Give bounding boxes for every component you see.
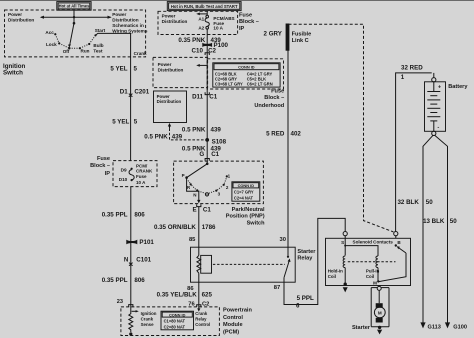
svg-text:Schematics in: Schematics in	[112, 23, 144, 28]
wire (dashed): fusible link to solenoid B stud	[289, 24, 394, 232]
svg-text:Fuse: Fuse	[271, 89, 284, 95]
ignition switch lever (in OFF)	[68, 22, 75, 50]
wire (dashed): 0.5 PNK 439 to splice S108	[170, 128, 206, 140]
text: Ignition Switch	[3, 63, 26, 77]
label: 0.5 PNK 439 (above S108)	[182, 126, 221, 133]
svg-text:Distribution: Distribution	[162, 19, 188, 24]
text: ignition switch position names	[45, 28, 105, 54]
svg-text:5 PPL: 5 PPL	[297, 295, 314, 302]
wire: 0.35 PNK 439 from A2 down	[206, 29, 208, 161]
label: 5 YEL 5 (upper)	[110, 65, 137, 72]
svg-text:Control: Control	[195, 322, 210, 327]
PNP switch position contacts	[190, 175, 228, 196]
node M junction	[377, 280, 379, 282]
starter relay switch contact	[284, 247, 291, 282]
ground: starter case	[378, 326, 381, 329]
svg-text:Switch: Switch	[247, 220, 266, 226]
svg-text:M: M	[378, 310, 382, 315]
svg-text:D11: D11	[192, 94, 204, 101]
svg-text:Position (PNP): Position (PNP)	[226, 214, 265, 220]
svg-text:(PCM): (PCM)	[223, 330, 239, 336]
svg-text:10 A: 10 A	[136, 180, 146, 185]
fuse PCM/ABS 10A	[205, 16, 234, 31]
fuse block IP housing (dashed)	[113, 161, 157, 187]
svg-text:32 RED: 32 RED	[401, 64, 423, 71]
svg-text:Block –: Block –	[239, 19, 259, 25]
svg-text:Power: Power	[112, 12, 126, 17]
svg-text:Powertrain: Powertrain	[223, 308, 252, 314]
svg-text:Crank: Crank	[195, 311, 208, 316]
text: Pull-In Coil	[366, 268, 380, 279]
text: Fuse Block - IP (top right)	[239, 13, 259, 32]
svg-text:Link C: Link C	[292, 38, 309, 44]
solenoid plunger linkage (dashed)	[348, 261, 396, 263]
svg-text:Underhood: Underhood	[254, 103, 284, 109]
svg-text:C10: C10	[192, 47, 204, 54]
fusible link C (2 GRY)	[264, 24, 312, 51]
svg-text:A2: A2	[198, 25, 204, 30]
solenoid contact arm B to M	[379, 244, 406, 281]
resistor: ignition crank sense pull-down	[129, 312, 133, 333]
text: PNP position names	[182, 173, 231, 198]
svg-text:E: E	[193, 207, 197, 214]
grommet P101	[126, 239, 154, 246]
svg-text:P: P	[182, 173, 185, 178]
pin 23 into PCM	[117, 299, 133, 307]
svg-text:Distribution: Distribution	[8, 17, 34, 22]
svg-text:Fuse: Fuse	[239, 13, 252, 19]
terminal A1	[198, 15, 208, 21]
connector D11 / C1	[192, 92, 218, 100]
svg-text:Test: Test	[93, 49, 103, 54]
svg-text:C2=4 NAT: C2=4 NAT	[234, 195, 254, 200]
svg-text:5: 5	[134, 119, 138, 126]
wire: START contact to crank output	[96, 33, 131, 57]
label: 0.35 PNK 439	[178, 37, 221, 44]
wire: 32 RED 1 battery positive to solenoid B	[396, 73, 432, 232]
svg-text:2 GRY: 2 GRY	[264, 31, 283, 38]
svg-text:P101: P101	[139, 239, 154, 246]
svg-text:1786: 1786	[202, 224, 216, 231]
PCM module housing (dashed)	[121, 307, 219, 336]
label: 0.5 PNK 439 (dashed branch)	[144, 133, 182, 140]
svg-text:Run: Run	[81, 48, 90, 53]
starter relay coil	[197, 247, 212, 282]
svg-text:85: 85	[189, 237, 196, 243]
svg-text:M: M	[373, 280, 377, 285]
starter relay box	[191, 247, 296, 282]
svg-text:0.5 PNK: 0.5 PNK	[182, 126, 206, 133]
svg-text:Off: Off	[63, 49, 70, 54]
PNP position arc (dotted)	[188, 178, 227, 194]
svg-text:G100: G100	[453, 324, 467, 330]
PCM internal ground node	[129, 332, 132, 335]
svg-text:0.35 PPL: 0.35 PPL	[102, 277, 128, 284]
svg-text:Bulb: Bulb	[93, 43, 103, 48]
starter motor M1	[371, 288, 389, 327]
PNP switch rotor	[185, 161, 208, 179]
svg-text:Lock: Lock	[46, 42, 57, 47]
svg-text:IP: IP	[105, 171, 111, 177]
svg-text:439: 439	[211, 126, 222, 133]
ignition switch position arc (dotted)	[55, 34, 95, 48]
wire: M terminal to starter motor	[378, 290, 380, 303]
ignition switch housing (dashed)	[5, 10, 146, 57]
pull-in coil	[376, 256, 378, 281]
PCM ignition crank sense input arrow	[132, 310, 139, 312]
arrow: output of power distribution box	[168, 123, 171, 128]
wire: 0.35 YEL/BLK 625 relay 86 to PCM	[198, 282, 200, 309]
terminal S	[341, 232, 347, 245]
svg-text:0.5 PNK: 0.5 PNK	[144, 133, 168, 140]
svg-text:CONN ID: CONN ID	[238, 183, 255, 188]
svg-text:Park/Neutral: Park/Neutral	[232, 207, 265, 213]
svg-text:Distribution: Distribution	[157, 99, 182, 104]
svg-text:Coil: Coil	[328, 274, 336, 279]
svg-text:806: 806	[134, 211, 145, 218]
svg-text:C2: C2	[202, 301, 209, 307]
svg-text:Block –: Block –	[264, 95, 284, 101]
wire: 32 BLK 50 battery negative to G113	[423, 135, 433, 322]
svg-text:CONN ID: CONN ID	[238, 65, 255, 70]
svg-text:Fusible: Fusible	[292, 32, 312, 38]
label: 0.35 YEL/BLK 625	[157, 292, 213, 299]
svg-text:50: 50	[450, 218, 457, 225]
connector 76 / C2	[188, 301, 209, 307]
svg-text:+: +	[438, 85, 441, 91]
text: Hold-In Coil	[328, 268, 343, 279]
text: Ignition Crank Sense	[141, 311, 157, 327]
svg-text:C3=68 LT GRY: C3=68 LT GRY	[215, 81, 243, 86]
svg-text:C201: C201	[134, 88, 149, 95]
svg-text:N: N	[124, 256, 129, 263]
text: Fuse Block - Underhood	[254, 89, 284, 109]
svg-text:C1=80 NAT: C1=80 NAT	[164, 319, 186, 324]
svg-text:Coil: Coil	[366, 274, 374, 279]
PCM CONN ID table	[161, 311, 194, 330]
svg-text:32 BLK: 32 BLK	[397, 199, 419, 206]
svg-text:Hot in RUN, Bulb Test and STAR: Hot in RUN, Bulb Test and START	[171, 4, 238, 9]
svg-text:Starter: Starter	[352, 325, 371, 331]
label: 32 BLK 50	[397, 199, 433, 206]
text: Power Distribution (IP fuse box)	[162, 14, 188, 24]
label: 0.5 PNK 439 (below S108)	[182, 146, 221, 153]
svg-text:C6=2 LT GRN: C6=2 LT GRN	[247, 81, 273, 86]
connector G / C1	[199, 151, 219, 161]
svg-text:C1=7 GRY: C1=7 GRY	[234, 190, 254, 195]
svg-text:Acc: Acc	[45, 30, 54, 35]
starter solenoid housing	[326, 238, 411, 285]
svg-text:CONN ID: CONN ID	[169, 312, 186, 317]
power distribution source box (solid)	[154, 91, 187, 123]
svg-text:5 YEL: 5 YEL	[110, 65, 127, 72]
svg-text:Ignition: Ignition	[141, 311, 157, 316]
ground G100	[445, 322, 467, 330]
text: Starter Relay	[297, 249, 316, 261]
wire: 0.35 PPL 806 down to PCM	[130, 187, 132, 312]
svg-text:D1: D1	[120, 88, 128, 95]
text: Power Distribution Schematics in Wiring Systems	[112, 12, 148, 33]
label: 32 RED / 1	[401, 64, 423, 81]
svg-text:Pull-In: Pull-In	[366, 268, 380, 273]
label: 5 PPL 6	[296, 295, 314, 310]
hold-in coil	[343, 238, 347, 286]
svg-text:Hot at All Times: Hot at All Times	[59, 4, 90, 9]
label: 0.35 PPL 806 (upper)	[102, 211, 146, 218]
svg-text:Fuse: Fuse	[97, 156, 110, 162]
wire: P/N contact jumper to output	[187, 178, 199, 201]
svg-text:Control: Control	[223, 315, 243, 321]
svg-text:IP: IP	[239, 26, 245, 32]
terminal M	[373, 280, 381, 290]
svg-text:Distribution: Distribution	[158, 67, 184, 72]
svg-text:0.35 PPL: 0.35 PPL	[102, 211, 128, 218]
svg-text:Fuse: Fuse	[136, 174, 147, 179]
svg-text:625: 625	[202, 292, 213, 299]
battery B1	[425, 82, 446, 132]
svg-text:402: 402	[291, 131, 302, 138]
grommet P100	[202, 42, 228, 49]
svg-text:Crank: Crank	[141, 316, 154, 321]
text: Crank Relay Control	[195, 311, 210, 327]
wire: 5 YEL crank wire down to IP fuse block	[130, 57, 132, 161]
label box: Hot in RUN, Bulb Test and START	[167, 2, 241, 11]
wire: 2 GRY / 5 RED 402 down to relay 30	[287, 51, 289, 248]
scan edge artifact top	[0, 0, 474, 2]
svg-text:5: 5	[134, 65, 138, 72]
terminal B	[394, 232, 402, 245]
ignition switch position contacts	[54, 33, 96, 49]
fuse block underhood housing (dashed)	[207, 59, 283, 89]
svg-text:Block –: Block –	[90, 163, 110, 169]
svg-text:Relay: Relay	[297, 256, 313, 262]
svg-text:Battery: Battery	[448, 84, 468, 90]
terminal D9	[121, 167, 133, 172]
svg-text:Solenoid Contacts: Solenoid Contacts	[353, 240, 394, 245]
wire: battery feed into ignition switch	[73, 10, 75, 23]
text: Park/Neutral Position (PNP) Switch	[226, 207, 265, 227]
svg-text:Switch: Switch	[3, 70, 23, 77]
svg-text:Start: Start	[95, 28, 106, 33]
svg-text:D9: D9	[121, 167, 127, 172]
text: Powertrain Control Module (PCM)	[223, 308, 252, 336]
svg-text:5 RED: 5 RED	[266, 131, 285, 138]
svg-text:Sense: Sense	[141, 322, 154, 327]
svg-text:S: S	[341, 240, 344, 245]
label: 5 YEL 5 (lower)	[112, 119, 137, 126]
PNP CONN ID table	[232, 182, 260, 201]
text: Power Distribution (middle)	[158, 62, 184, 72]
power distribution reference box (dashed)	[153, 57, 208, 87]
svg-text:-: -	[437, 125, 439, 131]
svg-text:87: 87	[274, 285, 280, 291]
svg-text:Relay: Relay	[195, 317, 207, 322]
label: 5 RED 402	[266, 131, 301, 138]
label: 0.35 PPL 806 (lower)	[102, 277, 146, 284]
wire: S to pull-in coil	[344, 245, 378, 256]
svg-text:S108: S108	[212, 139, 227, 146]
svg-text:1: 1	[401, 74, 405, 81]
svg-text:C1: C1	[209, 94, 217, 101]
svg-text:D10: D10	[119, 177, 128, 182]
fuse block IP housing top right (dashed)	[158, 11, 238, 34]
starter relay linkage (dashed)	[213, 263, 285, 265]
svg-text:N: N	[193, 192, 196, 197]
arrow: to Power Distribution (middle)	[196, 64, 207, 67]
svg-text:6: 6	[296, 303, 300, 310]
svg-text:C101: C101	[136, 256, 151, 263]
svg-text:Hold-In: Hold-In	[328, 268, 343, 273]
label: 0.35 ORN/BLK 1786	[154, 224, 216, 231]
battery negative terminal	[432, 131, 436, 135]
terminal A2	[198, 25, 208, 30]
svg-text:G: G	[199, 151, 204, 158]
svg-text:76: 76	[188, 301, 195, 307]
connector C101 (N)	[124, 256, 152, 266]
svg-text:A1: A1	[198, 17, 204, 22]
svg-text:Crank: Crank	[134, 51, 147, 56]
connector E / C1	[193, 204, 212, 214]
svg-text:Module: Module	[223, 322, 243, 328]
svg-text:10 A: 10 A	[213, 26, 223, 31]
svg-text:C1: C1	[203, 207, 211, 214]
label box: Hot at All Times	[57, 2, 91, 11]
svg-text:C1: C1	[211, 151, 219, 158]
svg-text:30: 30	[280, 237, 286, 243]
svg-text:50: 50	[426, 199, 433, 206]
ground G113	[420, 322, 440, 330]
connector C10 / C2	[192, 47, 217, 55]
svg-text:5 YEL: 5 YEL	[112, 119, 129, 126]
text: Fuse Block - IP (left)	[90, 156, 110, 177]
svg-text:13 BLK: 13 BLK	[423, 218, 445, 225]
terminal D10	[119, 177, 133, 182]
wire: PNK 439 main vertical from IP fuse to PNP switch	[206, 11, 208, 16]
svg-text:806: 806	[134, 277, 145, 284]
svg-text:439: 439	[172, 133, 183, 140]
svg-text:23: 23	[117, 299, 123, 305]
PNP switch housing (dashed)	[174, 161, 264, 204]
splice S108	[205, 138, 226, 146]
label: 13 BLK 50	[423, 218, 457, 225]
svg-text:CRANK: CRANK	[136, 168, 153, 173]
svg-text:Wiring Systems: Wiring Systems	[112, 28, 148, 33]
underhood fuse block CONN ID table	[213, 63, 280, 87]
battery positive terminal	[432, 73, 436, 82]
svg-text:0.35 YEL/BLK: 0.35 YEL/BLK	[157, 292, 198, 299]
connector C201 (D1)	[120, 88, 150, 97]
arrow: to Power Distribution	[196, 13, 207, 16]
svg-text:0.35 ORN/BLK: 0.35 ORN/BLK	[154, 224, 196, 231]
arrow: PNP output exits housing	[197, 200, 200, 204]
svg-text:C2=80 NAT: C2=80 NAT	[164, 324, 186, 329]
wire: 13 BLK 50 battery negative to G100	[435, 135, 448, 322]
wire: 0.35 ORN/BLK 1786 to starter relay 85	[198, 207, 200, 248]
svg-text:G113: G113	[428, 324, 441, 330]
svg-text:Distribution: Distribution	[112, 18, 138, 23]
wire: 5 PPL 6 relay 87 to solenoid S	[284, 218, 345, 304]
svg-text:Starter: Starter	[297, 249, 316, 255]
arrow: Power Distribution both ways	[40, 16, 112, 19]
ground: solenoid case (hold-in)	[343, 287, 348, 292]
text: Power Distribution (left, ignition box)	[8, 12, 34, 22]
svg-text:0.35 PNK: 0.35 PNK	[178, 37, 205, 44]
fuse PCM/CRANK 10A	[129, 163, 153, 184]
